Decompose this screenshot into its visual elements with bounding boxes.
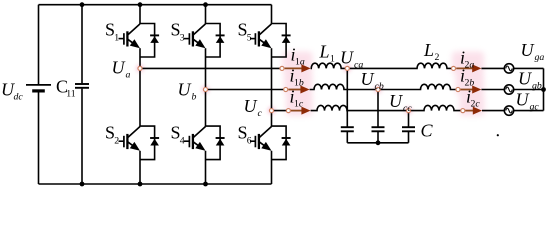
svg-text:U: U xyxy=(244,96,258,116)
svg-text:U: U xyxy=(516,90,530,110)
svg-text:1: 1 xyxy=(330,54,335,65)
svg-text:c: c xyxy=(258,108,263,119)
svg-text:U: U xyxy=(521,40,535,60)
svg-text:L: L xyxy=(319,42,330,62)
svg-text:3: 3 xyxy=(180,33,185,44)
svg-text:dc: dc xyxy=(14,92,24,103)
svg-text:4: 4 xyxy=(180,135,185,146)
svg-text:11: 11 xyxy=(66,89,76,100)
svg-text:gb: gb xyxy=(532,81,542,92)
svg-text:1b: 1b xyxy=(294,78,304,89)
svg-text:gc: gc xyxy=(530,102,540,113)
svg-text:a: a xyxy=(126,70,131,81)
svg-text:5: 5 xyxy=(247,33,252,44)
svg-text:C: C xyxy=(421,121,434,141)
svg-text:U: U xyxy=(389,91,403,111)
svg-text:ga: ga xyxy=(535,52,545,63)
svg-text:1: 1 xyxy=(114,33,119,44)
svg-text:cc: cc xyxy=(403,103,412,114)
svg-text:U: U xyxy=(112,58,126,78)
svg-text:U: U xyxy=(518,69,532,89)
svg-text:2a: 2a xyxy=(465,60,475,71)
svg-text:b: b xyxy=(192,92,197,103)
svg-text:1a: 1a xyxy=(295,57,305,68)
svg-text:U: U xyxy=(178,80,192,100)
svg-text:6: 6 xyxy=(247,135,252,146)
svg-text:1c: 1c xyxy=(294,99,304,110)
svg-text:L: L xyxy=(423,40,434,60)
svg-text:U: U xyxy=(340,48,354,68)
svg-text:2: 2 xyxy=(114,135,119,146)
svg-text:2: 2 xyxy=(435,52,440,63)
svg-text:cb: cb xyxy=(375,81,384,92)
svg-text:U: U xyxy=(361,69,375,89)
svg-text:2c: 2c xyxy=(471,99,481,110)
